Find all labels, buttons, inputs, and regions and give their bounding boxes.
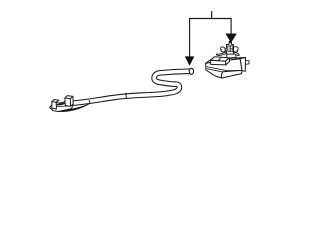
sleeve seam tick	[125, 93, 128, 99]
connector front crease left	[206, 67, 227, 71]
clip saddle	[56, 101, 65, 105]
hose outline	[64, 71, 190, 104]
connector upper tier top face	[211, 57, 230, 61]
connector right face	[240, 58, 245, 72]
connector front crease right lower	[227, 69, 242, 71]
connector right tab	[245, 60, 249, 64]
connector front crease right	[207, 69, 227, 73]
hose-swoosh junction tick	[89, 100, 91, 104]
retainer clip inner slot	[228, 46, 233, 51]
retainer clip left flange	[216, 52, 226, 55]
connector main body top face	[206, 58, 246, 64]
clip left wall	[52, 100, 59, 110]
arrow to hose end	[185, 57, 194, 66]
retainer clip left ear	[220, 47, 225, 52]
clip base	[50, 102, 74, 112]
retainer clip right ear	[233, 47, 238, 52]
retainer clip right foot step	[234, 52, 240, 56]
hose swoosh under clip	[55, 103, 90, 111]
hose inner white	[64, 71, 190, 104]
clip channel fill	[55, 99, 66, 108]
connector bottom lip	[221, 70, 242, 78]
connector upper tier front face	[211, 60, 226, 65]
retainer clip body with top notch	[225, 43, 233, 54]
hose end cap	[189, 68, 193, 74]
arrow to connector clip	[226, 34, 237, 45]
retainer clip pedestal	[227, 54, 236, 58]
clip base front edge	[52, 105, 71, 108]
clip back wall	[65, 96, 73, 107]
connector upper tier right face	[226, 58, 230, 65]
leader bracket line	[190, 11, 232, 57]
connector front face	[206, 59, 242, 78]
